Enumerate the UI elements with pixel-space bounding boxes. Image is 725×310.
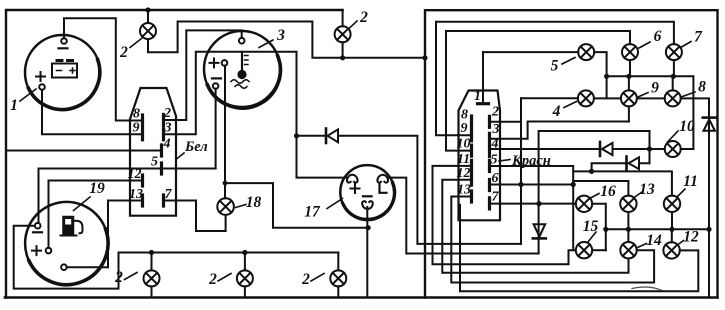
svg-text:18: 18 xyxy=(246,194,262,211)
svg-text:11: 11 xyxy=(457,152,470,167)
svg-text:3: 3 xyxy=(276,27,285,44)
svg-text:5: 5 xyxy=(551,58,559,75)
svg-text:7: 7 xyxy=(694,29,703,46)
svg-text:13: 13 xyxy=(457,183,471,198)
svg-text:2: 2 xyxy=(301,271,310,288)
svg-text:4: 4 xyxy=(491,137,499,152)
svg-text:3: 3 xyxy=(492,122,500,137)
svg-text:12: 12 xyxy=(683,229,699,246)
svg-text:17: 17 xyxy=(304,204,321,221)
svg-text:12: 12 xyxy=(128,167,142,182)
svg-text:9: 9 xyxy=(651,80,659,97)
svg-text:4: 4 xyxy=(552,103,561,120)
svg-text:7: 7 xyxy=(165,187,173,202)
svg-text:6: 6 xyxy=(492,171,499,186)
svg-text:7: 7 xyxy=(492,190,500,205)
svg-text:14: 14 xyxy=(646,232,662,249)
svg-text:2: 2 xyxy=(359,9,368,26)
svg-text:8: 8 xyxy=(133,107,140,122)
svg-text:5: 5 xyxy=(151,155,158,170)
svg-text:1: 1 xyxy=(474,89,481,104)
svg-text:1: 1 xyxy=(10,97,18,114)
svg-text:4: 4 xyxy=(163,137,171,152)
svg-text:10: 10 xyxy=(679,118,695,135)
svg-text:3: 3 xyxy=(164,121,172,136)
svg-text:19: 19 xyxy=(89,180,105,197)
svg-text:2: 2 xyxy=(114,269,123,286)
svg-text:8: 8 xyxy=(698,79,706,96)
svg-text:9: 9 xyxy=(133,121,140,136)
svg-text:2: 2 xyxy=(491,105,499,120)
svg-text:13: 13 xyxy=(129,187,143,202)
svg-text:6: 6 xyxy=(654,28,662,45)
svg-text:2: 2 xyxy=(163,106,171,121)
svg-text:11: 11 xyxy=(683,173,698,190)
svg-text:5: 5 xyxy=(491,153,498,168)
svg-text:12: 12 xyxy=(457,166,471,181)
svg-text:13: 13 xyxy=(639,181,655,198)
svg-text:Красн: Красн xyxy=(511,153,551,169)
svg-text:2: 2 xyxy=(119,44,128,61)
svg-text:Бел: Бел xyxy=(184,139,208,155)
svg-text:9: 9 xyxy=(461,121,468,136)
svg-text:10: 10 xyxy=(457,137,471,152)
svg-text:2: 2 xyxy=(208,271,217,288)
svg-text:15: 15 xyxy=(583,218,599,235)
svg-text:16: 16 xyxy=(600,183,616,200)
